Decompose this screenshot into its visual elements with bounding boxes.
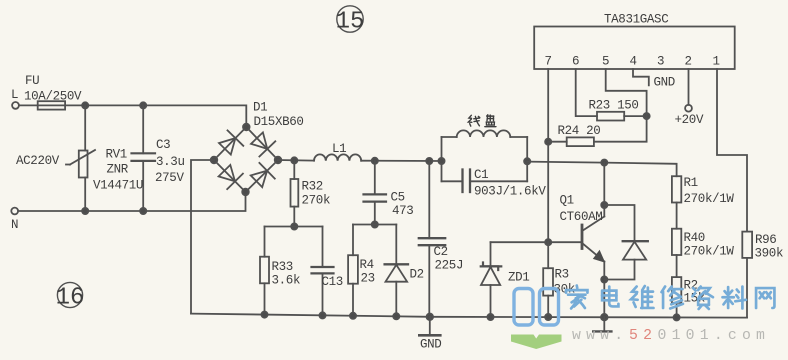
svg-text:GND: GND (420, 338, 441, 352)
wire R32 bottom to R33 and C13 (265, 226, 323, 228)
svg-text:N: N (11, 218, 18, 232)
label: xian pan (coil pan) (468, 115, 496, 127)
node: top wire / RV1 (82, 102, 88, 108)
node: coil box left (438, 158, 444, 164)
resistor R1 270k/1W (672, 176, 735, 229)
svg-text:RV1: RV1 (106, 148, 127, 162)
svg-text:TA831GASC: TA831GASC (604, 13, 668, 27)
svg-text:R4: R4 (360, 258, 374, 272)
svg-text:Q1: Q1 (560, 194, 574, 208)
svg-text:4: 4 (630, 55, 637, 69)
svg-text:C5: C5 (391, 191, 405, 205)
svg-text:u: u (178, 155, 185, 169)
wire pin 2 to +20V (688, 69, 690, 105)
circled 15 (336, 6, 365, 36)
wire pin 6 to R23 (576, 69, 597, 116)
svg-text:0101.com: 0101.com (658, 328, 771, 344)
svg-text:+20V: +20V (675, 113, 704, 127)
svg-text:ZD1: ZD1 (508, 271, 529, 285)
node: D2 / bus (393, 313, 399, 319)
transistor Q1 CT60AM (560, 163, 606, 318)
node: R32 top (291, 157, 297, 163)
svg-text:R32: R32 (302, 180, 323, 194)
svg-text:R24 20: R24 20 (558, 124, 601, 138)
url text (572, 328, 770, 344)
gate wire to base (491, 241, 583, 243)
svg-text:R96: R96 (755, 233, 776, 247)
diode top-left arm (219, 130, 243, 154)
damper diode at Q1 (604, 205, 648, 280)
diode bottom-right arm (251, 163, 275, 187)
ground GND main (419, 317, 441, 352)
svg-text:2: 2 (685, 55, 692, 69)
svg-text:R3: R3 (555, 268, 569, 282)
svg-text:C3: C3 (156, 138, 170, 152)
ground bus (191, 314, 747, 318)
node: R23 right / pin5 line (644, 113, 650, 119)
capacitor C2 225J (419, 161, 463, 317)
node: C13 / bus (319, 312, 325, 318)
node: top wire / C3 (140, 102, 146, 108)
resistor R40 270k/1W (672, 229, 735, 277)
wire pin 7 to gate node (547, 69, 549, 242)
resistor R23 150 (589, 99, 647, 121)
wire C5 bottom to R4 and D2 (353, 224, 396, 226)
svg-text:D15XB60: D15XB60 (254, 115, 304, 129)
node: R33 / bus (261, 312, 267, 318)
diode D2 (385, 225, 424, 317)
fuse FU 10A/250V (24, 74, 82, 110)
resistor R32 270k (291, 160, 331, 226)
wire L to fuse (19, 104, 38, 106)
svg-text:R33: R33 (272, 260, 293, 274)
svg-text:390k: 390k (755, 247, 784, 261)
terminal +20V (675, 105, 704, 127)
svg-text:D2: D2 (410, 268, 424, 282)
diode top-right arm (251, 132, 275, 156)
svg-text:473: 473 (392, 204, 413, 218)
svg-text:D1: D1 (253, 101, 267, 115)
capacitor C5 473 (364, 161, 414, 225)
node: emitter / damper (601, 276, 607, 282)
svg-text:6: 6 (572, 55, 579, 69)
IC U1 TA831GASC (534, 13, 735, 70)
svg-text:C1: C1 (474, 168, 488, 182)
node: pin7 / R24 (545, 139, 551, 145)
svg-text:3: 3 (657, 55, 664, 69)
node: ZD1 / bus (487, 314, 493, 320)
node: C5 top (372, 158, 378, 164)
node: N wire / C3 (140, 208, 146, 214)
svg-text:3.6k: 3.6k (272, 274, 301, 288)
svg-text:270k/1W: 270k/1W (684, 245, 735, 259)
svg-text:AC220V: AC220V (16, 154, 60, 168)
svg-text:5: 5 (602, 55, 609, 69)
resistor R3 30k (543, 242, 575, 317)
node: R2 / bus (674, 314, 680, 320)
circled 16 (56, 282, 85, 311)
node: emitter / bus (601, 314, 608, 321)
svg-text:L1: L1 (332, 142, 346, 156)
resistor R96 390k (742, 232, 783, 318)
svg-text:270k: 270k (302, 194, 331, 208)
svg-text:www.: www. (572, 328, 628, 344)
svg-text:C13: C13 (322, 275, 343, 289)
svg-text:225J: 225J (435, 259, 464, 273)
zener ZD1 (481, 242, 530, 317)
wire pin 1 to R96 (717, 69, 747, 232)
svg-text:GND: GND (654, 76, 675, 90)
node: collector / damper (601, 202, 607, 208)
node: C2 top (426, 158, 432, 164)
svg-text:23: 23 (361, 272, 375, 286)
ground at emitter (593, 317, 611, 331)
node: R32 bottom junction (291, 223, 297, 229)
svg-text:52: 52 (629, 328, 657, 344)
svg-text:R23 150: R23 150 (589, 99, 639, 113)
svg-text:C2: C2 (434, 245, 448, 259)
wire bridge plus to L1 (278, 159, 314, 162)
svg-text:V14471U: V14471U (93, 179, 143, 193)
wire coil box to collector / R1 (527, 162, 676, 177)
wire pin 5 jog to R24 right (594, 69, 647, 142)
node: R4 / bus (350, 313, 356, 319)
svg-text:275V: 275V (155, 171, 184, 185)
svg-text:15: 15 (336, 9, 365, 36)
svg-text:L: L (11, 88, 18, 102)
WATERMARK (511, 286, 774, 349)
terminal L (11, 88, 19, 109)
CJK watermark text: jia dian wei xiu zi liao wang (566, 286, 774, 309)
svg-text:R40: R40 (684, 231, 705, 245)
svg-text:10A/250V: 10A/250V (24, 90, 82, 104)
bridge rectifier D1 D15XB60 (211, 101, 304, 196)
wire bridge minus to ground bus (191, 160, 214, 314)
wire fuse to bridge top corner (65, 105, 246, 127)
diode bottom-left arm (219, 165, 243, 189)
svg-text:3.3: 3.3 (156, 155, 177, 169)
resistor R2 15k (672, 277, 705, 317)
resistor R24 20 (548, 124, 600, 146)
svg-text:R1: R1 (684, 176, 698, 190)
green ribbon (511, 335, 562, 350)
svg-text:CT60AM: CT60AM (560, 210, 603, 224)
book icon (514, 289, 559, 326)
node: gate / R3 (545, 239, 551, 245)
capacitor C1 903J/1.6kV (461, 170, 463, 193)
svg-text:903J/1.6kV: 903J/1.6kV (474, 185, 546, 199)
svg-text:1: 1 (713, 55, 720, 69)
svg-text:270k/1W: 270k/1W (684, 192, 735, 206)
capacitor C3 3.3u 275V (132, 105, 185, 211)
resistor R4 23 (348, 225, 375, 316)
svg-text:ZNR: ZNR (107, 163, 129, 177)
inductor L1 (314, 142, 361, 161)
node: R3 / bus (545, 314, 551, 320)
svg-text:16: 16 (56, 285, 85, 312)
node: Q1 collector top (601, 160, 607, 166)
capacitor C13 (312, 227, 343, 316)
wire pin 4 to GND label (633, 69, 649, 85)
node: C2 GND junction (427, 314, 434, 321)
varistor RV1 ZNR V14471U (66, 105, 143, 211)
node: C5 bottom junction (372, 221, 378, 227)
resistor R33 3.6k (260, 227, 300, 315)
coil pan tank (xianpan) (442, 115, 547, 199)
wire N to bridge bottom corner (18, 192, 245, 211)
node: coil box right (524, 158, 530, 164)
svg-text:7: 7 (545, 55, 552, 69)
wire L1 to coil box (361, 160, 441, 162)
svg-text:FU: FU (25, 74, 39, 88)
node: N wire / RV1 (82, 208, 88, 214)
terminal N (11, 208, 18, 232)
